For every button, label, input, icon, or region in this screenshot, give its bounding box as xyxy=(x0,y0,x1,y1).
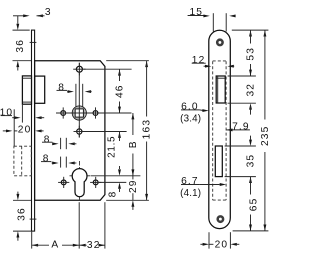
svg-text:8: 8 xyxy=(43,154,50,165)
leader 6.0 arrow xyxy=(199,109,202,112)
follower hub gray ring xyxy=(74,108,85,119)
ext case bottom left xyxy=(13,199,31,201)
faceplate screw mark bottom xyxy=(30,218,37,220)
dim 20 right xyxy=(200,243,202,245)
horizontal centerline follower row xyxy=(56,112,132,114)
dim A line xyxy=(32,244,38,247)
dim 163 xyxy=(145,61,148,67)
svg-text:32: 32 xyxy=(87,240,101,251)
cylinder side hole left xyxy=(61,180,66,185)
ext mid pair upper xyxy=(60,138,62,149)
svg-text:12: 12 xyxy=(192,55,206,66)
svg-text:36: 36 xyxy=(15,39,26,53)
dim 53 xyxy=(249,30,252,36)
ext line faceplate to A xyxy=(31,232,33,249)
latch front view xyxy=(216,76,225,103)
svg-text:8: 8 xyxy=(58,83,65,94)
dim 8 spindle arrows xyxy=(67,91,70,93)
dim 12 arrows xyxy=(204,65,207,67)
dim 8 cyl arrows xyxy=(119,166,121,169)
cylinder cutout front view xyxy=(215,146,222,177)
svg-text:6.7: 6.7 xyxy=(181,176,199,187)
svg-text:B: B xyxy=(128,140,139,148)
svg-text:A: A xyxy=(51,240,59,251)
ext plate bottom verticals xyxy=(208,232,210,248)
hole top xyxy=(76,66,82,72)
svg-text:6.0: 6.0 xyxy=(181,102,199,113)
dim B xyxy=(131,113,134,119)
ext deadbolt tip line xyxy=(13,109,15,146)
ext line center bottom xyxy=(78,202,80,248)
ext latch top row xyxy=(228,75,256,77)
lock case outline xyxy=(35,61,105,201)
svg-text:(3.4): (3.4) xyxy=(180,114,201,125)
dim 235 xyxy=(263,30,266,36)
vertical centerline upper xyxy=(78,63,80,138)
dim 8 mid lower arrows xyxy=(52,162,54,164)
hole left of follower xyxy=(61,111,66,116)
latch bolt head xyxy=(22,76,31,104)
leader 6.7 arrow xyxy=(199,184,219,186)
svg-text:21.5: 21.5 xyxy=(107,136,118,158)
ext latch bottom row xyxy=(228,102,256,104)
leader 7.9 arrow xyxy=(226,128,232,131)
svg-text:35: 35 xyxy=(246,154,257,168)
ext spindle lines xyxy=(75,84,77,107)
ext case top left xyxy=(13,60,32,62)
svg-text:10: 10 xyxy=(0,108,13,119)
ext plate top row xyxy=(232,29,269,31)
svg-text:29: 29 xyxy=(128,179,139,193)
dim 20 line xyxy=(3,130,8,132)
svg-text:15: 15 xyxy=(189,7,203,18)
ext cutout top row xyxy=(225,145,256,147)
follower square spindle hole xyxy=(75,109,83,117)
svg-text:163: 163 xyxy=(142,119,153,139)
case behind dashed right xyxy=(225,61,227,200)
ext case top right xyxy=(106,60,149,62)
ext plate bottom row xyxy=(233,230,269,232)
svg-text:65: 65 xyxy=(249,198,260,212)
ext latch tip line xyxy=(21,105,23,123)
dim 29 xyxy=(132,176,134,180)
faceplate side view (left) xyxy=(32,30,35,231)
screw hole bottom xyxy=(218,216,223,221)
ext cutout bottom row xyxy=(225,176,256,178)
svg-text:8: 8 xyxy=(44,134,51,145)
deadbolt thrown (dashed) xyxy=(14,146,31,176)
ext faceplate top left xyxy=(13,29,30,31)
svg-text:20: 20 xyxy=(18,125,32,136)
cylinder side hole right xyxy=(93,180,98,185)
svg-text:36: 36 xyxy=(17,207,28,221)
ext 15 pair xyxy=(212,13,214,31)
ext line case back bottom xyxy=(104,202,106,248)
case behind dashed left xyxy=(212,61,214,200)
svg-text:(4.1): (4.1) xyxy=(180,188,201,199)
svg-text:46: 46 xyxy=(115,84,126,98)
hole below follower xyxy=(77,129,82,134)
dim 3 line xyxy=(13,15,25,17)
svg-text:3: 3 xyxy=(45,7,52,18)
case behind dashed top xyxy=(213,60,226,62)
dim 46 xyxy=(118,69,121,75)
svg-text:20: 20 xyxy=(215,240,229,251)
ext hole131 row xyxy=(83,131,127,133)
ext cylholes row right xyxy=(99,181,126,183)
faceplate screw mark top xyxy=(30,41,37,43)
faceplate front view (stadium) xyxy=(209,30,231,228)
dim 35 arrows top xyxy=(250,136,252,140)
latch bolt tail in case xyxy=(35,76,45,103)
dim 65 xyxy=(249,177,252,183)
follower hub outer xyxy=(72,106,86,120)
dim 8 mid upper arrows xyxy=(53,143,55,145)
dim 36 bottom xyxy=(17,192,19,194)
euro cylinder hole xyxy=(72,169,87,197)
ext hole top row xyxy=(83,68,131,70)
dim 21.5 arrows xyxy=(118,132,121,138)
dim 10 arrows xyxy=(12,117,16,119)
ext cylinder row right xyxy=(91,175,141,177)
svg-text:8: 8 xyxy=(107,191,118,198)
svg-text:32: 32 xyxy=(246,83,257,97)
svg-text:235: 235 xyxy=(260,126,270,146)
dim 15 arrows xyxy=(203,14,209,17)
dim 32 bottom xyxy=(79,244,85,247)
ext case bottom right xyxy=(106,199,149,201)
screw hole top xyxy=(217,40,222,45)
ext faceplate bottom left xyxy=(13,230,31,232)
dim 36 top xyxy=(17,16,19,24)
hole right of follower xyxy=(93,111,98,116)
ext mid pair lower xyxy=(60,157,62,168)
vertical centerline cylinder xyxy=(79,161,81,200)
case behind dashed bottom xyxy=(213,199,226,201)
horizontal centerline cylinder xyxy=(70,175,91,177)
svg-text:7.9: 7.9 xyxy=(232,122,250,133)
svg-text:53: 53 xyxy=(246,47,257,61)
